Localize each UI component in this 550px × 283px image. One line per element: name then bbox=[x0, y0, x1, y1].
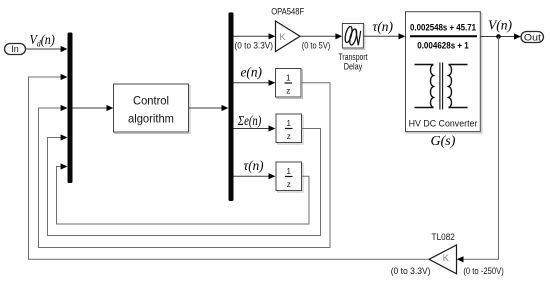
wire Control algorithm to Mux2 bbox=[189, 105, 229, 111]
svg-text:K: K bbox=[279, 32, 286, 43]
block unit delay 2 (1/z) bbox=[276, 114, 303, 144]
wire Mux2 to unit delay 1 bbox=[234, 80, 276, 86]
mux M1 bbox=[68, 33, 73, 184]
wire feedback unit delay 1 to Mux1 bbox=[39, 83, 331, 248]
svg-text:0.004628s + 1: 0.004628s + 1 bbox=[417, 41, 469, 51]
svg-text:(0 to 3.3V): (0 to 3.3V) bbox=[235, 41, 274, 52]
block Control algorithm bbox=[114, 84, 191, 134]
svg-text:(0 to -250V): (0 to -250V) bbox=[463, 266, 504, 277]
svg-text:Control: Control bbox=[133, 94, 169, 108]
svg-text:In: In bbox=[11, 44, 19, 54]
svg-text:Delay: Delay bbox=[344, 62, 363, 73]
gain TL082 bbox=[429, 232, 457, 274]
block HV DC Converter transfer function G(s) bbox=[406, 12, 482, 133]
wire In to Mux1 bbox=[26, 46, 68, 52]
mux M2 (demux) bbox=[229, 12, 234, 201]
transformer icon bbox=[415, 63, 468, 110]
wire Mux2 to unit delay 2 bbox=[234, 125, 276, 131]
inport In1 bbox=[5, 44, 26, 55]
wire Transport Delay to G(s) bbox=[364, 33, 406, 39]
wire V(n) feedback down to TL082 bbox=[457, 37, 499, 263]
outport Out1 bbox=[521, 32, 544, 43]
svg-text:e(n): e(n) bbox=[241, 66, 263, 81]
svg-text:(0 to 3.3V): (0 to 3.3V) bbox=[391, 266, 431, 277]
svg-text:HV DC Converter: HV DC Converter bbox=[409, 119, 478, 130]
svg-text:Σe(n): Σe(n) bbox=[237, 114, 262, 129]
block unit delay 1 (1/z) bbox=[276, 69, 303, 99]
wire G(s) to Out bbox=[481, 33, 521, 39]
svg-text:algorithm: algorithm bbox=[128, 112, 174, 126]
node junction V(n) bbox=[496, 34, 501, 39]
svg-text:Out: Out bbox=[524, 32, 542, 42]
svg-text:K: K bbox=[443, 253, 450, 264]
svg-text:1: 1 bbox=[286, 119, 291, 128]
wire Mux2 to OPA548F gain bbox=[234, 33, 276, 39]
gain OPA548F bbox=[271, 7, 304, 52]
svg-text:z: z bbox=[286, 87, 290, 96]
svg-text:z: z bbox=[287, 180, 291, 189]
svg-text:z: z bbox=[287, 132, 291, 141]
svg-text:1: 1 bbox=[286, 167, 291, 176]
wire feedback unit delay 3 to Mux1 bbox=[57, 163, 310, 224]
svg-text:Vd(n): Vd(n) bbox=[30, 31, 55, 49]
block Transport Delay bbox=[339, 24, 368, 73]
svg-text:0.002548s + 45.71: 0.002548s + 45.71 bbox=[410, 23, 476, 33]
wire TL082 output feedback to Mux1 bbox=[29, 74, 430, 259]
svg-text:τ(n): τ(n) bbox=[244, 159, 264, 174]
svg-text:G(s): G(s) bbox=[431, 134, 456, 149]
svg-text:OPA548F: OPA548F bbox=[271, 7, 304, 18]
svg-text:τ(n): τ(n) bbox=[373, 20, 394, 35]
svg-text:1: 1 bbox=[286, 74, 291, 83]
wire OPA548F to Transport Delay bbox=[300, 33, 342, 39]
svg-text:TL082: TL082 bbox=[432, 232, 455, 243]
block unit delay 3 (1/z) bbox=[276, 162, 303, 192]
svg-text:V(n): V(n) bbox=[488, 19, 512, 34]
wire Mux1 to Control algorithm bbox=[73, 105, 114, 111]
svg-text:(0 to 5V): (0 to 5V) bbox=[302, 41, 331, 52]
wire feedback unit delay 2 to Mux1 bbox=[48, 129, 321, 236]
wire Mux2 to unit delay 3 bbox=[234, 173, 276, 179]
